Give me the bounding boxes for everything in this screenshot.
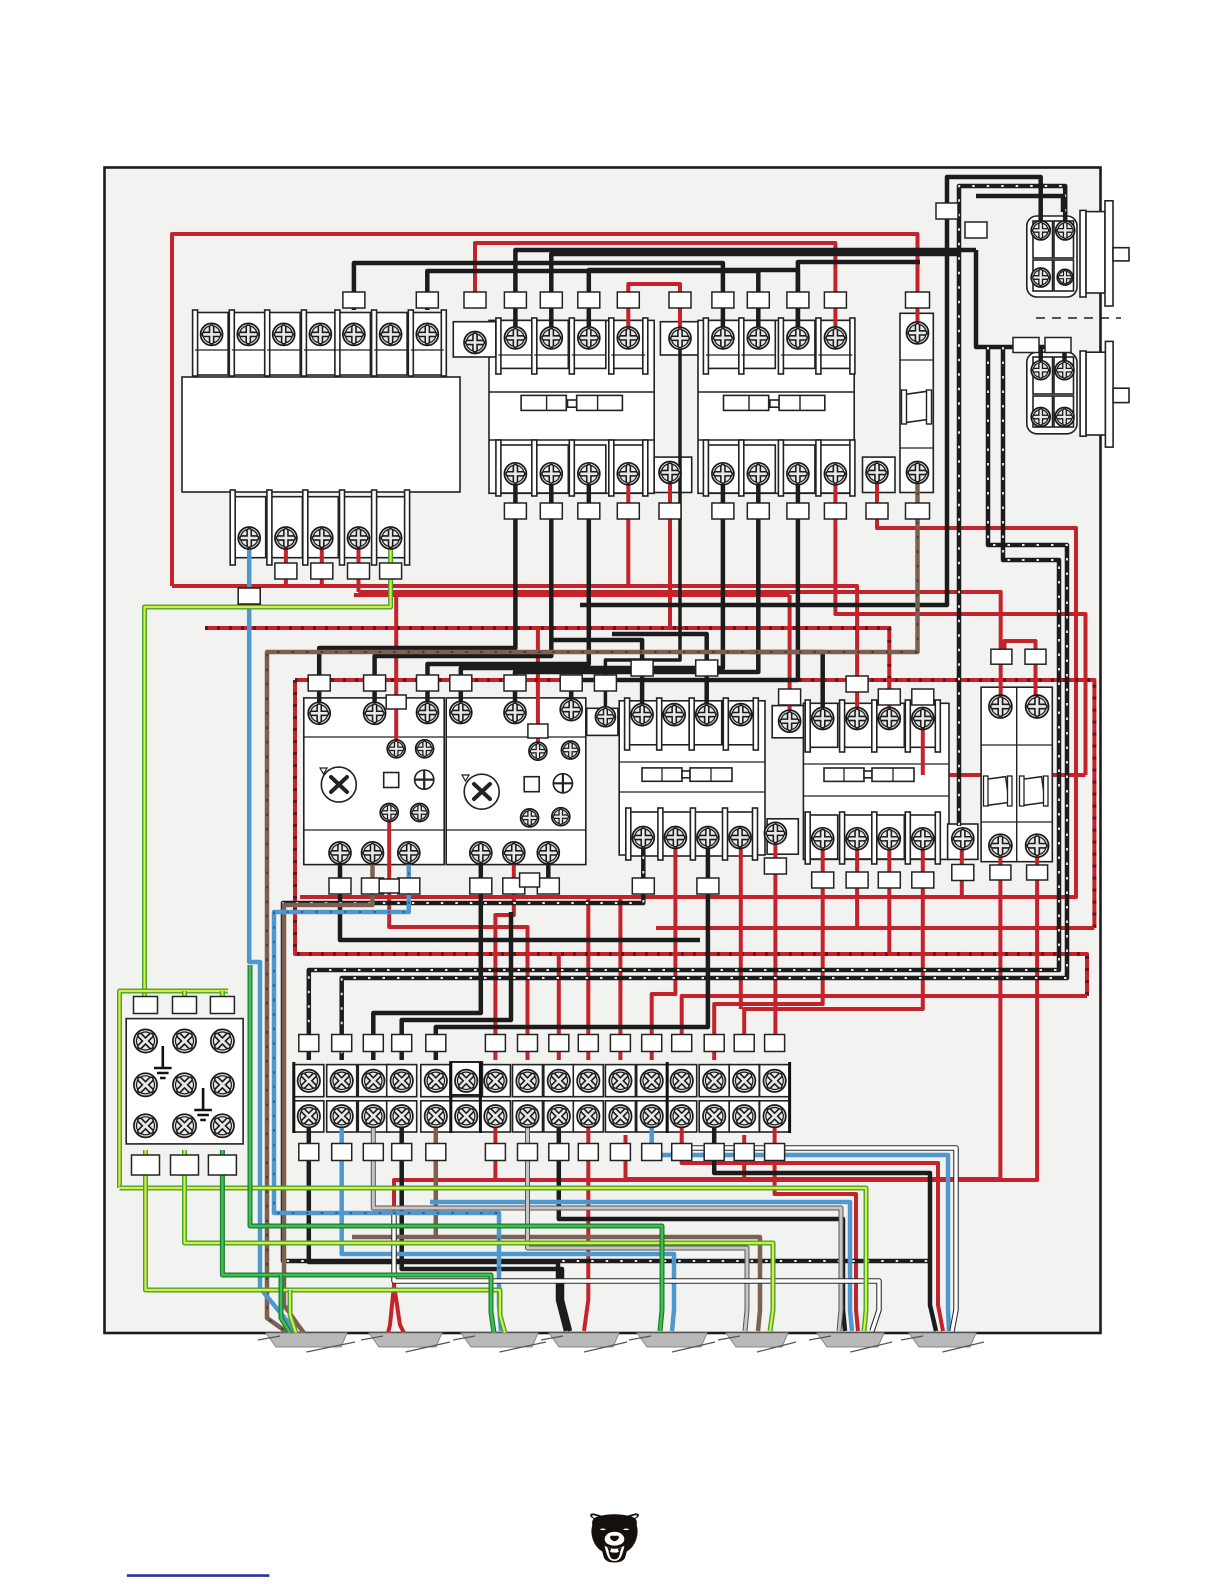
wire red bus 775 behind QF2 — [923, 773, 1086, 777]
wire GY TB1-5 to PE block — [145, 538, 391, 996]
wire black OL2s3 stub — [546, 858, 551, 890]
terminal strip TB1 body — [182, 377, 460, 492]
wire gray TB2-8 bottom to exit6 — [528, 1120, 748, 1331]
aux contact K4 bottom-right — [948, 824, 978, 859]
wire blue TB2-2 bottom to exit5 — [342, 1120, 674, 1331]
wire black K3s1 long left drop — [283, 842, 930, 1261]
wire blue mid to exit7 — [430, 1202, 852, 1331]
wire black K1s1 up bus — [515, 250, 976, 332]
wire black K2s3 to OL2s3 — [571, 476, 798, 705]
wire red QF2 jumper pole1-pole2 — [1005, 641, 1036, 702]
dashed divider line — [1036, 317, 1121, 319]
panel backplate — [105, 168, 1101, 1334]
wire red bus 586 — [172, 586, 857, 712]
wire red TB2-10 bottom to exit4 — [584, 1120, 588, 1331]
wire red K1s4 bottom — [626, 476, 630, 586]
connector CN1 — [1027, 201, 1129, 306]
aux contact K1 bottom-right — [654, 457, 692, 492]
wire black K3s3 top — [612, 634, 707, 710]
wire white loop to exit8 — [690, 1148, 956, 1331]
aux contact K3 bottom-right — [767, 819, 798, 854]
wire black CN2 riser — [976, 250, 1065, 366]
wire gray TB2-3 bottom to exit7 — [373, 1120, 841, 1331]
wire GY PE1 bottom to exit3 — [146, 1150, 506, 1333]
wire red QF2 pole1 bottom — [626, 850, 1001, 1179]
wire black TB2-4 bottom to exit4 — [402, 1120, 570, 1331]
wire GY PE2 bottom to exit6 — [185, 1150, 774, 1331]
wire red nest 996 — [682, 996, 1087, 1040]
wire black K2s3 second feed — [798, 262, 920, 332]
wire red bus 592 to QF2 pole1 — [359, 592, 1001, 702]
wire red jumper K1s4-aux — [628, 284, 680, 332]
contactor K2 — [698, 318, 855, 496]
wire black K1s3 to OL1s3 — [428, 476, 589, 708]
2-pole circuit breaker QF2 — [981, 687, 1052, 862]
wire black CN1-1 down bus — [580, 177, 1041, 605]
wire red OL2-s2 to TB2-7 — [495, 858, 513, 1060]
wire red K4s3 bottom nest — [887, 845, 891, 954]
wire black aux mid chain — [605, 344, 680, 712]
wire blue TB2-12 bottom to exit8 — [652, 1120, 949, 1331]
terminal strip TB1 bottom row — [230, 490, 409, 565]
connector CN2 — [1027, 341, 1129, 447]
wire red TB1-4 down — [357, 538, 361, 592]
wire black K2s1 to OL2s1 — [461, 476, 723, 708]
wire red K3 aux bottom to TB2-16 — [773, 840, 777, 1040]
bear logo — [590, 1513, 639, 1562]
wire black K1s2 up bus — [551, 254, 958, 332]
wire black TB1-5 to K2s1 — [354, 263, 723, 332]
wire black K1s1 to OL1s1 — [319, 476, 515, 709]
contactor K3 — [619, 698, 765, 860]
motor circuit breaker QM1 — [900, 313, 933, 492]
overload relay OL1 — [304, 698, 444, 865]
wire GY branch exit1 — [290, 1290, 296, 1333]
wire black K3s3 to TB2-5 — [436, 842, 708, 1060]
ground terminal block PE — [126, 1019, 243, 1144]
wire blue TB1-1 down to exit1 — [249, 538, 296, 1333]
wire red TB2-10 top from bus897 — [586, 897, 590, 1060]
wire red OL2 inner feed — [536, 628, 540, 747]
wire brown stub left — [352, 1235, 436, 1240]
wire brown OL1s2 down — [284, 858, 373, 1333]
wire red feed K1 aux / K2-4 — [475, 243, 835, 332]
wire red K4s1 to TB2-14 — [714, 845, 823, 1060]
wire red nest H928 — [656, 926, 1094, 930]
aux contact K2 bottom-right — [863, 457, 896, 492]
aux contact K1 left — [453, 322, 496, 357]
wire white mid to exit7 — [394, 1215, 879, 1331]
wire black TB2-4 top — [402, 912, 511, 1060]
wire number tags — [132, 203, 1072, 1175]
wire red bus 897 / K2 aux riser — [300, 476, 1076, 897]
wire red TB2-11 top from bus897 — [618, 897, 622, 1060]
wire black TB2-9 bottom to exit7 — [559, 1120, 845, 1331]
footer blue line — [127, 1574, 270, 1577]
wire black K4s1 top — [750, 652, 823, 714]
wire black marker-B stub — [976, 196, 1063, 212]
cable gland exits — [258, 1333, 984, 1352]
wire GY long bus 1188 — [120, 1188, 867, 1331]
wire black K2s2 to OL2s2 — [515, 476, 758, 708]
wire black OL1s1 bus940 — [340, 858, 700, 940]
wire GY PE top loop — [120, 991, 229, 1188]
aux contact K2 top-left — [660, 322, 700, 355]
wire brown TB2-5 bottom to exit6 — [436, 1120, 760, 1331]
overload relay OL2 — [446, 698, 586, 865]
wire black TB2-14 bottom to exit8 — [714, 1120, 936, 1331]
wire red K3s2 to TB2-12 — [652, 842, 676, 1060]
aux contact K3 top-right — [772, 706, 809, 738]
wire red main bus — [172, 234, 918, 586]
wire black K3s1 top — [552, 640, 642, 710]
wire red K2s4 bottom riser 614 — [835, 476, 1085, 775]
wire red K3 aux top feed — [788, 595, 792, 715]
wire green branch exit1 — [281, 1275, 290, 1333]
wire red OL1 inner feed — [394, 592, 398, 744]
wire black TB1-7 to K2s2 — [427, 271, 758, 332]
wire dashed red bus 628 — [205, 628, 889, 712]
wire dashed red bus 680 — [295, 680, 1094, 928]
wire dashed red bus 954 — [295, 680, 1087, 996]
wire red exit2 V leg — [394, 1285, 404, 1333]
terminal strip TB1 top row — [193, 310, 447, 376]
wire red TB2-15 stub — [742, 1135, 746, 1180]
wire GY PE drop3 — [220, 991, 225, 1000]
wire green bus 1275 to exit3 — [222, 1150, 494, 1333]
wire brown QM1 bottom long — [267, 478, 918, 1333]
wire black CN2-1 drop — [1038, 347, 1043, 366]
contactor K4 — [803, 700, 949, 864]
wire red K3s4 to nest1009 — [739, 842, 743, 1009]
wire red QF2 pole2 bottom to exit2 — [388, 850, 1037, 1333]
wire red TB2-9 top from bus954 — [557, 954, 561, 1060]
wire red nest 1009 — [744, 845, 923, 1040]
wire red K4 aux bottom — [960, 845, 964, 897]
wire red TB2-16 bottom to exit7 — [775, 1120, 858, 1331]
wire black K1s2 to OL1s2 — [375, 476, 552, 709]
wire black K1s3 up to K2s3 — [589, 270, 798, 332]
wire black OL2s1 to TB2-3 — [373, 858, 481, 1060]
wire red TB1-2 down — [284, 538, 288, 586]
wire red TB1-3 down — [320, 538, 324, 586]
wire red TB2-13 bottom to exit8 — [682, 1120, 943, 1331]
wire red bus 595 — [354, 593, 790, 597]
contactor K1 — [489, 318, 654, 496]
wire red K1 aux bottom — [668, 476, 672, 628]
wire GY PE drops top — [182, 991, 187, 1000]
screw heads — [134, 221, 1075, 1138]
wire black CN1-2 down bus — [959, 186, 1065, 826]
wire blue OL1s3 to exit3 — [274, 858, 501, 1331]
wire green bus 1226 to exit5 — [250, 965, 662, 1331]
wire black CN2 loop A to TB2-2 — [342, 347, 1067, 1060]
wire red K4s4 top drop — [921, 712, 925, 775]
wire red K4s2 bottom nest — [855, 845, 859, 928]
aux contact block mid row — [587, 708, 618, 735]
wire red OL1-inner to TB2-8 — [389, 820, 527, 1060]
bottom terminal strip TB2 — [294, 1062, 790, 1133]
wire black CN2 loop B to TB2-1 — [309, 347, 1059, 1060]
wire black TB2-1 bottom to exit4 — [309, 1120, 566, 1331]
wire red TB2-7 bottom stub — [493, 1120, 497, 1180]
